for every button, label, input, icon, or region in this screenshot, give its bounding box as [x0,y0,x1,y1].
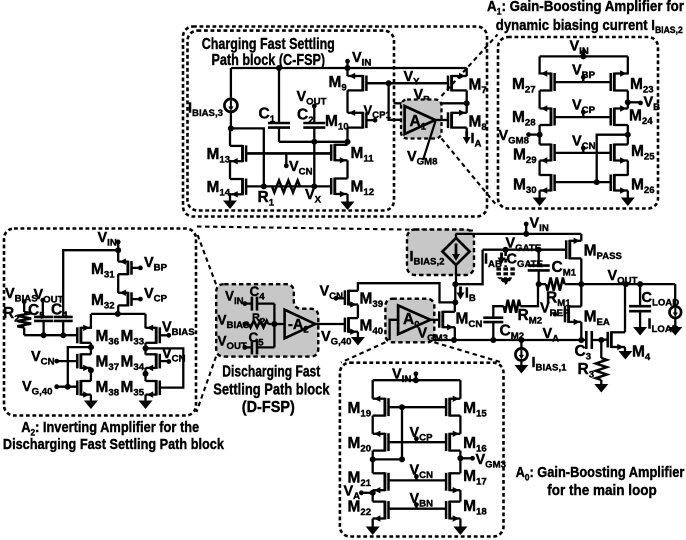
transistor M19 [383,398,386,417]
node VGM3 junction (A0) [457,455,463,461]
transistor M14 [241,178,244,195]
transistor M18 [448,501,451,520]
capacitor C1 [278,68,280,123]
wire M25-M26 column [627,161,629,176]
current arrow IA [465,131,468,139]
transistor M22 [383,501,386,520]
wire M4 drain up [624,284,626,332]
node CM2 tap [490,337,496,343]
wire VOUT rail [581,283,675,285]
transistor M25 [613,144,616,162]
svg-text:Charging Fast Settling: Charging Fast Settling [202,36,335,53]
wire A0 out to MCN gate [430,319,439,321]
wire C4 branch [63,250,118,317]
wire C1-C2 bottom bus [279,141,348,143]
wire input rail (A2) [24,334,77,336]
node R1 left junction [261,183,267,189]
transistor M7 [450,75,453,91]
node M37/M38 [88,367,94,373]
transistor M21 [383,472,386,491]
wire M31-M32 column [117,274,119,293]
node M33 drain [143,345,149,351]
node VA junction (A0) [370,490,376,496]
node VIN (A2 block) [116,240,121,245]
capacitor C5 (D-FSP) [245,346,252,348]
node R2 junction (D-FSP) [271,321,277,327]
wire M21/M17 gate bus [389,479,446,481]
wire first-stage node line [91,313,146,315]
transistor M38 [79,380,82,396]
A0 block dashed box [340,363,504,537]
resistor R3 [600,340,602,358]
wire M15-M16 column [459,416,461,434]
node VB junction (A1) [625,99,631,105]
node VCP (A0) [414,436,419,441]
transistor M27 [550,73,553,92]
ground below CLOAD [633,327,647,336]
transistor M20 [383,433,386,452]
resistor RM2 [493,306,503,317]
pointer D-FSP to A2 block top [197,232,217,284]
node VOUT terminal (D-FSP) [242,345,247,350]
wire M39-M40 column [357,305,359,319]
node comp node [536,281,542,287]
node VREF terminal [553,312,558,317]
transistor M12 [333,178,336,196]
current source IBIAS,1 [520,340,522,349]
wire M7 drain to VB [466,90,468,112]
transistor M26 [613,174,616,192]
wire M27-M28 column [538,91,540,109]
node diode bottom [399,456,405,462]
ground below IBIAS,1 [514,365,528,374]
svg-text:Settling Path block: Settling Path block [213,382,330,399]
wire VY [366,82,448,84]
pointer VGM8 to A1 [423,121,436,160]
node VX [311,183,317,189]
svg-text:A0: Gain-Boosting Amplifier: A0: Gain-Boosting Amplifier [516,464,685,483]
wire M12 source down [346,194,348,202]
dependent source IBIAS,2 diamond [442,238,469,265]
A2 block dashed box [4,229,196,416]
wire VIN col (A2) [117,242,119,262]
node VIN (C-FSP) terminal [345,59,350,64]
node VY [386,80,392,86]
wire A0 right col seg1 [459,380,461,399]
wire VGATE [483,249,567,251]
resistor R1 [272,180,300,192]
pointer to IBIAS2 box [197,227,473,231]
ground below R3 [594,384,608,393]
wire MPASS source up [580,234,582,241]
wire MCN source down [454,327,456,340]
wire M37-M38 column [90,368,92,381]
transistor M34 [155,353,158,369]
node VBP terminal (A2) [138,266,143,271]
node VBIAS gate terminal [166,333,171,338]
wire M20 drain link [372,451,374,474]
wire A2 out to M40 gate [315,323,345,325]
IBIAS,2 gray dashed box [407,230,474,276]
A1 block dashed box [498,37,658,209]
node M34/M35 [143,371,149,377]
node VCP (A1) [581,110,586,115]
wire gate bus VX (M14-M12) [246,185,331,187]
ground below M14 [223,201,237,210]
node VCN stub (C-FSP) [285,153,287,164]
node VBP [581,75,586,80]
node VCP terminal (A2) [138,297,143,302]
node cross bottom [594,179,600,185]
resistor R2 (A2) [23,302,25,312]
ground below M26 [621,198,635,207]
ground below M35 [139,401,153,410]
capacitor CM2 [483,316,503,319]
wire M36 drain down [90,343,92,355]
node IBIAS,3/M13 drain [228,125,234,131]
node M36 drain [88,344,94,350]
node VGM8 terminal [526,132,531,137]
transistor MPASS [568,240,571,260]
wire to VGATE node [455,250,482,285]
D-FSP gray dashed box [216,284,318,356]
transistor M28 [550,108,553,127]
node IB top [452,281,458,287]
A1 inset gray dashed box [401,100,442,139]
current source IBIAS,3 [230,68,232,99]
wire node to M33 source [144,314,146,328]
capacitor C5 (A2) [42,300,44,317]
op-amp A1 (inset triangle) [405,106,436,134]
wire MEA source down [580,322,582,340]
wire M10 drain down [346,128,348,142]
node VCN terminal (M39) [334,296,339,301]
wire gate bus VCN (M13-M11) [246,152,331,154]
wire VIN rail (C-FSP) [231,67,467,69]
node CM1 tap [536,247,542,253]
transistor M23 [613,73,616,92]
node VCN gate terminal (A2 right) [166,359,171,364]
node MPASS drain/VOUT [578,281,584,287]
node VIN terminal (D-FSP) [242,301,247,306]
junction C4 branch [115,247,121,253]
wire VCP gate bus [555,116,611,118]
ground below M4 [618,351,632,360]
node MCN source tap [451,337,457,343]
transistor M16 [448,433,451,452]
wire output bus (A2) [68,347,91,387]
ground below M18 [453,527,467,536]
node VBIAS terminal (A2) [22,299,27,304]
wire M30 source down [538,191,540,198]
current source ILOAD [674,284,676,306]
wire M14 source down [229,194,231,200]
transistor M32 [126,292,129,307]
wire A1 right col seg1 [627,56,629,74]
wire diamond bottom [455,265,457,285]
node CLOAD tap [637,281,643,287]
node VOUT (C-FSP) terminal [312,104,317,109]
current arrow IB [459,287,462,295]
transistor M13 [241,145,244,162]
node VGM8 (A1) [537,132,543,138]
capacitor CLOAD [639,284,641,306]
pointer A1 inset to A1 block bottom [442,139,498,207]
wire MCN drain up [454,302,456,311]
wire M22 source down [372,519,374,527]
junction C5 (A2) [41,332,47,338]
op-amp A0 (inset triangle) [398,305,430,334]
wire M7 source up [466,68,468,76]
transistor M8 [450,112,453,129]
transistor M10 [361,112,364,129]
wire VB [394,102,467,104]
ground below M38 [84,401,98,410]
node MEA source tap [578,337,584,343]
wire input bus (D-FSP) [273,304,275,348]
wire M18 source down [459,519,461,527]
wire A1 top rail [540,55,628,57]
svg-text:for the main loop: for the main loop [547,482,657,499]
transistor M17 [448,472,451,491]
transistor M11 [333,144,336,162]
wire M19-M20 column [372,416,374,434]
wire diode link (A0) [401,407,403,459]
node VGM3 terminal (A0) [470,456,475,461]
ground below ILOAD [668,327,682,336]
wire VA rail [390,339,582,341]
wire M8 source down [466,128,468,133]
node VB [464,100,470,106]
wire VB out [628,101,641,103]
capacitor C2 [303,122,325,125]
pointer D-FSP to A2 block bottom [197,357,217,412]
capacitor C4 (A2) [54,316,73,319]
wire M11-M12 column [346,160,348,178]
node VOUT terminal (A2) [40,298,45,303]
node IB bottom [452,299,458,305]
wire M16-M17 column [459,451,461,474]
node VIN (main) [524,222,529,227]
wire M35 source down [144,395,146,401]
wire VY to A1 input [389,83,405,120]
svg-text:A1: Gain-Boosting Amplifier fo: A1: Gain-Boosting Amplifier for [487,0,684,17]
wire M30/M26 gate bus [555,181,611,183]
wire M34-M35 column [144,368,146,381]
svg-text:Discharging Fast: Discharging Fast [222,363,320,380]
wire A0 input from VA [390,320,399,340]
node VIN (A0 block) [414,371,419,376]
wire M22/M18 gate bus [389,508,446,510]
wire M19/M15 gate bus [389,406,446,408]
wire M24 drain to M25 [627,125,629,145]
transistor M29 [550,144,553,162]
capacitor C4 (D-FSP) [245,302,252,304]
junction A0 rail [413,377,419,383]
wire M28 drain to VGM8 node [538,125,540,145]
wire M20/M16 gate bus [389,441,446,443]
C-FSP outer dashed box [183,27,487,217]
node M19 gate junction [399,404,405,410]
wire VGM8 in [529,133,540,135]
node M4 drain tap [623,281,629,287]
wire M9 drain to M10 [346,90,348,112]
node VBIAS terminal (D-FSP) [242,322,247,327]
wire A1 left col seg1 [538,56,540,74]
wire MPASS drain down [580,258,582,284]
wire VCN gate bus (A1) [555,152,611,154]
junction C4 (A2) [60,332,66,338]
wire M17-M18 column [459,490,461,501]
transistor M9 [361,75,364,91]
ground below M30 [533,198,547,207]
wire A1 cross link [597,135,628,182]
wire MEA drain up [580,284,582,306]
svg-text:dynamic biasing current IBIAS,: dynamic biasing current IBIAS,2 [496,18,683,36]
resistor R2 (D-FSP) [245,323,249,325]
transistor M37 [79,353,82,369]
node VBN (A0) [414,502,419,507]
capacitor C3 [581,339,586,341]
ground below M40 [351,337,365,346]
node VCN (A1) [581,146,586,151]
wire M13 source to M14 drain [229,161,231,179]
node VGATE terminal [503,247,509,253]
junction M9 source tap [345,65,351,71]
wire node to M36 source [90,314,92,329]
op-amp A2 (D-FSP triangle) [285,310,316,339]
pointer A0 inset to A0 block left [341,342,385,362]
wire M21-M22 column [372,490,374,501]
wire diode link down [231,128,264,186]
current arrow IAB [500,253,503,260]
wire VIN rail (main) [456,233,582,235]
wire M9 source up [346,68,348,76]
wire M38 source down [90,395,92,401]
C-FSP inner dashed box [188,31,395,211]
node VIN (A1 block) [581,50,586,55]
node VB terminal (A1) [638,101,643,106]
wire cascode loop (A2) [146,348,184,387]
wire VGM3 out [460,457,472,459]
wire A0 top rail [373,379,461,381]
junction A1 rail VIN [580,53,586,59]
wire A0 left col seg1 [372,380,374,399]
wire A1 output to M8 gate [435,119,448,121]
pointer A1 inset to A1 block top [442,35,498,97]
wire VBP gate bus [555,81,611,83]
transistor MCN [441,311,444,328]
node A1 cross top [625,132,631,138]
wire diamond top stub [455,234,457,239]
node IBIAS1 tap [518,337,524,343]
wire M29-M30 column [538,161,540,176]
pointer A0 inset to A0 block right [434,342,502,362]
transistor MEA [567,306,570,323]
capacitor CM1 [538,250,540,266]
wire M40 source down [357,332,359,337]
transistor M30 [550,174,553,192]
transistor M4 [610,331,613,348]
wire M20 drain to diode [373,458,402,460]
transistor M39 [347,290,350,306]
node M20 drain [370,456,376,462]
node VCN (A0) [414,474,419,479]
ground below M12 [341,202,355,211]
transistor M24 [613,108,616,127]
transistor M36 [79,327,82,344]
wire M23-M24 column [627,91,629,109]
node VCN terminal (A2) [54,359,59,364]
wire M4 source down [624,347,626,351]
node VCP1 terminal [373,118,378,123]
resistor RM1 [539,283,546,285]
svg-text:Discharging Fast Settling Path: Discharging Fast Settling Path block [3,437,225,453]
node output bus join [65,384,71,390]
svg-text:(D-FSP): (D-FSP) [242,399,295,416]
wire M26 source down [627,191,629,198]
svg-text:A2: Inverting Amplifier for th: A2: Inverting Amplifier for the [21,420,199,438]
transistor M31 [126,261,129,276]
wire M32 drain down [117,305,119,314]
node C2 bottom [311,139,317,145]
node C3/R3/M4 junction [598,337,604,343]
svg-text:Path block (C-FSP): Path block (C-FSP) [211,52,325,69]
parasitic cap CGATE (dashed) [504,252,507,267]
node VA terminal (A0) [359,490,364,495]
wire M33 drain down [144,343,146,355]
transistor M35 [155,380,158,396]
node M32 drain [115,311,121,317]
wire C2 to VX [313,142,315,187]
transistor M33 [155,327,158,344]
ground below M22 [366,527,380,536]
node M10/M11 drain [345,139,351,145]
junction C1 tap [276,65,282,71]
transistor M40 [347,317,350,333]
wire M39 drain link [358,283,455,302]
A0 inset gray dashed box [385,299,434,343]
wire VIN rail to M7 [466,67,468,69]
node VG40 terminal (A2) [54,384,59,389]
transistor M15 [448,398,451,417]
wire M11 drain up [346,142,348,145]
wire M13 drain up [229,128,231,146]
